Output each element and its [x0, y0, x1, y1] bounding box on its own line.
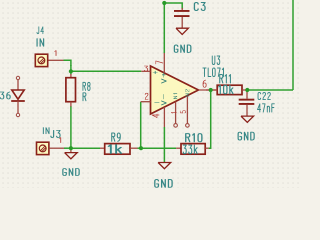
wire J3 pin to junction: [64, 147, 71, 149]
pin name - of U3: [155, 101, 159, 103]
pin name N1 of U3: [174, 93, 178, 98]
value 10k of R11: [219, 85, 233, 93]
pin name V+ of U3: [161, 72, 166, 83]
pin name + of U3: [153, 71, 157, 74]
wire R10 right up to output junction: [209, 90, 211, 148]
value TL071 of U3: [203, 68, 224, 76]
wire R11 junction to right rail: [247, 89, 293, 91]
ground symbol below op-amp: [158, 163, 171, 169]
diode D36 (cropped at left edge): [11, 76, 25, 116]
junction node on V+ rail: [162, 1, 166, 5]
ground symbol below J3 junction: [65, 150, 78, 159]
junction node at R11/C22: [245, 88, 249, 92]
value 47nF of C22: [258, 104, 275, 112]
resistor R9: [100, 144, 138, 155]
pin number 1 of U3: [171, 111, 176, 114]
ground symbol below C22: [241, 116, 254, 122]
wire R9 to feedback junction: [138, 147, 142, 149]
wire junction to R9: [71, 147, 100, 149]
pin number 1 of J4: [55, 51, 56, 56]
wire op-amp pin 4 to ground: [163, 127, 165, 163]
reference C22: [258, 92, 270, 99]
ground symbol below C3: [176, 28, 188, 34]
junction node at J4/R8/pin3: [69, 69, 73, 73]
connector J4: [35, 54, 63, 66]
wire top rail down to op-amp pin 7: [163, 3, 165, 53]
value IN of J3: [43, 128, 49, 134]
power label GND below J3: [63, 169, 79, 176]
junction node at R9/R10/pin2: [139, 146, 143, 150]
pin name V- of U3: [161, 95, 166, 105]
reference J4: [37, 27, 44, 34]
wire R8 bottom to J3 junction: [70, 106, 72, 148]
value R of R8: [83, 93, 86, 101]
wire top rail junction to C3: [164, 3, 182, 9]
resistor R8: [66, 74, 76, 107]
pin number 6 of U3: [203, 80, 206, 87]
pin number 2 of U3: [145, 93, 148, 99]
wire junction up to op-amp pin 2: [140, 102, 142, 149]
wire right rail vertical: [292, 0, 294, 90]
reference R9: [112, 133, 121, 141]
junction node at op-amp output: [209, 88, 213, 92]
wire junction to R10: [141, 147, 176, 149]
pin number 7 of U3: [156, 61, 163, 64]
power label GND below C22: [238, 132, 254, 140]
capacitor C3: [174, 8, 190, 28]
pin number 3 of U3: [144, 66, 147, 71]
resistor R10: [176, 144, 208, 155]
junction node at J3/R9/ground: [69, 146, 73, 150]
pin name N2 of U3: [186, 89, 190, 96]
reference R8: [83, 82, 90, 90]
pin number 1 of J3: [59, 138, 60, 143]
reference 36 (cropped): [0, 92, 10, 99]
power label GND below C3: [174, 45, 190, 52]
op-amp U3 body: [141, 53, 218, 127]
value 1k of R9: [109, 145, 122, 154]
value IN of J4: [37, 39, 44, 47]
wire junction to op-amp pin 3: [71, 70, 141, 72]
reference C3: [194, 3, 205, 11]
reference J3: [51, 130, 60, 137]
power label GND below op-amp: [155, 180, 172, 188]
wire corner down to junction: [70, 65, 72, 75]
reference U3: [212, 56, 219, 64]
connector J3: [37, 142, 65, 154]
reference R11: [220, 75, 231, 83]
pin number 4 of U3: [152, 114, 159, 117]
pin number 5 of U3: [180, 111, 186, 113]
capacitor C22: [239, 90, 255, 116]
reference R10: [186, 134, 202, 142]
resistor R11: [206, 85, 247, 94]
wire J4 pin to corner: [64, 60, 71, 66]
value 33k of R10: [183, 145, 197, 154]
